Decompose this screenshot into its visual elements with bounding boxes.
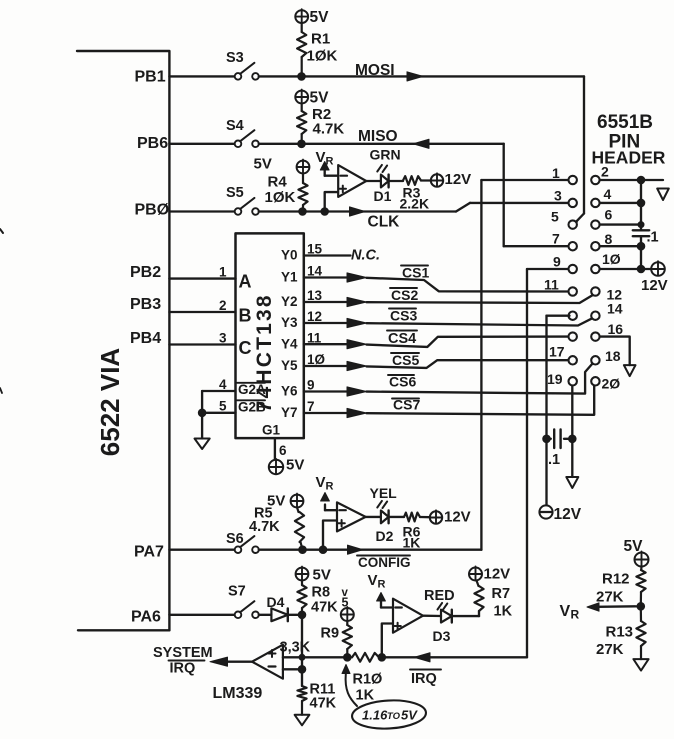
pin number 5 <box>219 399 227 414</box>
svg-text:Y6: Y6 <box>281 384 298 399</box>
pin Y6 stub and pin number 9 <box>281 378 347 399</box>
header pin 15 circle <box>569 332 577 340</box>
net CS3 wire to header pin 14 <box>367 318 593 325</box>
net label CS6 <box>388 374 416 390</box>
node junction VR <box>637 603 645 611</box>
switch S3 <box>226 50 259 80</box>
arrow CONFIG flow right <box>348 545 364 554</box>
header pin number 7 <box>552 231 560 247</box>
pin G2A <box>237 382 266 397</box>
resistor R5 <box>295 507 304 549</box>
svg-text:V: V <box>368 572 378 589</box>
6522 VIA chip outline <box>77 51 169 630</box>
svg-text:SYSTEM: SYSTEM <box>153 645 213 661</box>
svg-text:14: 14 <box>607 301 623 317</box>
header pin number 12 <box>607 287 623 303</box>
svg-text:5V: 5V <box>310 90 330 107</box>
svg-text:MISO: MISO <box>358 128 398 145</box>
wire header pin 1 to CONFIG net vertical <box>481 180 568 550</box>
value label R8 47K <box>311 585 338 616</box>
wire D1 to R3 <box>389 180 403 182</box>
svg-text:4.7K: 4.7K <box>249 519 280 535</box>
node junction rail pin8 <box>637 242 645 250</box>
svg-text:4: 4 <box>604 186 612 202</box>
capacitor .1 on rail <box>633 230 659 246</box>
svg-text:4.7K: 4.7K <box>313 121 345 138</box>
svg-text:1ØK: 1ØK <box>307 48 338 65</box>
header pin number 6 <box>605 207 613 223</box>
header pin number 19 <box>547 371 563 387</box>
svg-text:2.2K: 2.2K <box>400 196 430 212</box>
arrow CLK flow right <box>350 207 366 216</box>
wire R6 to 12V <box>420 516 430 519</box>
wire S6 to CONFIG line <box>259 549 482 551</box>
svg-text:D2: D2 <box>376 528 394 544</box>
svg-text:1: 1 <box>219 265 227 280</box>
svg-text:1Ø: 1Ø <box>307 352 325 367</box>
wire PB6 to S4 <box>169 143 234 145</box>
svg-text:R9: R9 <box>321 626 340 642</box>
capacitor .1 below header <box>547 430 573 469</box>
wire D3 to R7 <box>452 611 479 616</box>
ground pin 16 <box>624 365 636 376</box>
switch S7 <box>228 584 259 619</box>
svg-text:Y7: Y7 <box>281 405 298 420</box>
net CS5 wire to header pin 17 <box>367 360 570 368</box>
wire PB0 to S5 <box>169 210 234 212</box>
svg-text:47K: 47K <box>310 696 337 712</box>
value label R12 27K <box>596 571 630 606</box>
svg-text:PB2: PB2 <box>130 264 161 281</box>
svg-text:CS3: CS3 <box>390 308 417 324</box>
svg-text:PB3: PB3 <box>130 296 161 313</box>
svg-text:LM339: LM339 <box>213 685 263 702</box>
svg-text:1: 1 <box>552 165 560 181</box>
svg-text:CONFIG: CONFIG <box>358 555 411 570</box>
net label CS4 <box>387 331 417 348</box>
svg-text:9: 9 <box>553 254 561 270</box>
arrow Y3 output flow <box>347 318 367 327</box>
connector 6551B pin header label <box>592 112 666 168</box>
svg-text:15: 15 <box>307 242 323 257</box>
svg-text:R12: R12 <box>602 571 630 588</box>
header pin 14 circle <box>591 312 599 320</box>
diode D4 <box>271 608 287 621</box>
svg-text:TO: TO <box>387 711 401 722</box>
value label R4 10K <box>265 174 296 207</box>
svg-text:5V: 5V <box>310 9 330 26</box>
decoder U2 74HCT138 body <box>236 233 304 438</box>
header pin 7 circle <box>569 242 577 250</box>
svg-text:R: R <box>571 608 580 622</box>
power 5V for R8 <box>296 567 331 584</box>
svg-text:5V: 5V <box>313 567 331 584</box>
label RED <box>424 588 455 604</box>
label LM339 <box>213 685 263 702</box>
power 5V for R5 <box>267 493 303 510</box>
arrow SYSTEM IRQ flow left <box>210 657 228 666</box>
wire S7 to D4 <box>259 614 272 616</box>
power 5V for G1 <box>269 457 305 475</box>
node junction rail pin6 <box>638 222 644 228</box>
pin label PB1 <box>135 69 166 86</box>
svg-text:1Ø: 1Ø <box>602 251 621 267</box>
wire R8 node down to LM339 and R11 <box>301 615 303 686</box>
net CS1 wire to header pin 11 <box>367 278 569 292</box>
label GRN <box>370 147 401 163</box>
resistor R4 <box>298 174 307 212</box>
header pin 19 circle <box>569 377 577 385</box>
pin Y2 stub and pin number 13 <box>281 288 347 309</box>
value label R10 1K <box>353 672 383 704</box>
wire main comparator line R9/R10 node <box>283 656 347 658</box>
header pin number 2 <box>601 164 609 180</box>
svg-text:5V: 5V <box>401 708 418 723</box>
wire header pin 9 to IRQ net vertical <box>527 269 568 657</box>
svg-text:12V: 12V <box>554 506 582 523</box>
node junction D4/R8 <box>298 611 306 619</box>
wire S3 to R1 junction and MOSI line <box>259 75 584 77</box>
pin label PB6 <box>137 135 168 152</box>
svg-text:17: 17 <box>549 344 565 360</box>
header pin number 14 <box>607 301 623 317</box>
6522 VIA label <box>95 348 125 457</box>
pin C <box>239 338 252 358</box>
svg-text:16: 16 <box>608 321 624 337</box>
header pin 6 circle <box>591 220 599 228</box>
svg-text:R13: R13 <box>606 624 634 641</box>
svg-text:N.C.: N.C. <box>351 248 380 264</box>
node junction PB0/R4 <box>299 208 307 216</box>
led D2 yellow <box>377 501 388 523</box>
node junction PB0/comparator <box>321 208 329 216</box>
wire U5 inverting input stub <box>381 606 393 608</box>
signal label CONFIG <box>357 555 411 570</box>
net CS7 wire to header pin 20 <box>367 385 595 415</box>
node junction main line crossing <box>299 654 305 660</box>
resistor R10 <box>352 653 379 662</box>
svg-text:9: 9 <box>307 378 315 393</box>
svg-text:12V: 12V <box>641 277 668 294</box>
svg-text:CS2: CS2 <box>391 287 418 303</box>
reference VR arrow into U1 inverting input <box>316 149 334 176</box>
ground below cap <box>566 477 578 488</box>
svg-text:7: 7 <box>307 399 315 414</box>
net label CS5 <box>391 352 419 368</box>
reference VR arrow into U3 inverting input <box>316 474 334 510</box>
svg-text:R8: R8 <box>312 585 331 601</box>
svg-text:2: 2 <box>601 164 609 180</box>
wire U4 inverting stub <box>283 668 302 670</box>
power 5V for R1 <box>295 9 329 26</box>
wire MOSI vertical to header pin 5 <box>576 76 584 221</box>
svg-text:V: V <box>560 603 571 620</box>
svg-text:.1: .1 <box>647 230 659 246</box>
led D1 green <box>377 165 388 188</box>
svg-text:18: 18 <box>605 348 621 364</box>
svg-text:1.16: 1.16 <box>362 708 388 723</box>
power 12V for R7 <box>469 566 510 583</box>
svg-text:2: 2 <box>219 298 227 313</box>
pin number 2 <box>219 298 227 313</box>
svg-text:C: C <box>239 338 252 358</box>
svg-text:PB1: PB1 <box>135 69 166 86</box>
svg-text:3: 3 <box>219 331 227 346</box>
value label R1 10K <box>307 31 338 65</box>
pin number 4 <box>219 377 227 392</box>
header pin number 4 <box>604 186 612 202</box>
pin label PB3 <box>130 296 161 313</box>
resistor R13 <box>636 606 645 659</box>
svg-text:PBØ: PBØ <box>135 202 170 219</box>
svg-text:4: 4 <box>219 377 227 392</box>
power 5V for R9 <box>341 587 354 621</box>
pin Y4 stub and pin number 11 <box>281 330 347 351</box>
wire U1 non-inverting input from PB0 node <box>325 192 339 211</box>
svg-text:3: 3 <box>554 188 562 204</box>
svg-text:7: 7 <box>552 231 560 247</box>
svg-text:S7: S7 <box>228 584 246 600</box>
pin label PA6 <box>131 609 161 626</box>
svg-text:12V: 12V <box>445 171 472 188</box>
resistor R1 <box>297 23 306 76</box>
svg-text:.1: .1 <box>548 452 560 468</box>
svg-text:G1: G1 <box>262 423 281 438</box>
node junction PB1/R1 <box>298 73 306 81</box>
header pin 9 circle <box>569 265 577 273</box>
value label R11 47K <box>310 682 337 712</box>
svg-text:RED: RED <box>424 588 455 604</box>
svg-text:IRQ: IRQ <box>411 671 437 687</box>
svg-text:6522 VIA: 6522 VIA <box>95 348 125 457</box>
node junction U4 inverting stub <box>298 666 306 674</box>
value label R6 1K <box>403 524 421 551</box>
header pin number 17 <box>549 344 565 360</box>
header pin 11 circle <box>569 287 577 295</box>
svg-text:27K: 27K <box>596 641 624 658</box>
pin number 6 <box>279 443 287 458</box>
net label CS2 <box>390 287 418 303</box>
svg-text:6: 6 <box>605 207 613 223</box>
op-amp U5 comparator (IRQ led) <box>393 599 423 633</box>
ground top right <box>657 189 669 201</box>
svg-text:3,3K: 3,3K <box>280 640 311 656</box>
node junction rail pin10 <box>637 265 645 273</box>
svg-text:12V: 12V <box>444 509 471 526</box>
svg-text:CLK: CLK <box>368 214 401 231</box>
svg-text:19: 19 <box>547 371 563 387</box>
header pin number 3 <box>554 188 562 204</box>
svg-text:5: 5 <box>551 209 559 225</box>
wire IRQ line to header pin 9 <box>382 656 527 658</box>
header pin 20 circle <box>591 377 599 385</box>
power -12V below cap <box>539 505 581 523</box>
scan mark left edge 1 <box>0 229 3 233</box>
svg-text:R7: R7 <box>492 586 511 602</box>
svg-text:PB6: PB6 <box>137 135 168 152</box>
signal label MISO <box>358 128 398 145</box>
pin A <box>239 272 252 292</box>
pin Y3 stub and pin number 12 <box>281 309 347 330</box>
op-amp U4 LM339 comparator (SYSTEM IRQ) <box>252 645 283 679</box>
header pin number 16 <box>608 321 624 337</box>
header pin number 10 <box>602 251 621 267</box>
node junction cap left <box>543 435 551 443</box>
label D4 <box>267 594 285 610</box>
arrow MOSI flow right <box>407 72 423 81</box>
svg-text:11: 11 <box>544 277 559 293</box>
header pin 12 circle <box>591 287 599 295</box>
arrow VR flow left <box>587 603 599 611</box>
pin label PB2 <box>130 264 161 281</box>
annotation arrow to R10 node <box>342 665 357 707</box>
net CS6 wire to header pin 18 <box>367 364 593 394</box>
svg-text:5V: 5V <box>254 156 272 173</box>
svg-text:GRN: GRN <box>370 147 401 163</box>
svg-text:R: R <box>326 481 334 493</box>
node junction rail pin4 <box>637 199 645 207</box>
resistor R11 <box>297 686 306 715</box>
wire PA6 to S7 <box>169 614 234 616</box>
svg-text:V: V <box>316 149 326 166</box>
reference VR arrow into U5 inverting input <box>368 572 386 608</box>
node junction G2B/ground <box>198 409 206 417</box>
switch S4 <box>226 118 259 147</box>
pin B <box>239 306 252 326</box>
wire header pin 19 down to bypass cap <box>571 386 573 478</box>
wire PB3 to pin B <box>169 311 235 313</box>
wire U3 output to D2 <box>366 516 381 518</box>
net label IRQ <box>410 670 441 688</box>
svg-text:Y1: Y1 <box>281 270 298 285</box>
switch S5 <box>226 185 259 215</box>
svg-text:1ØK: 1ØK <box>265 189 296 206</box>
svg-text:YEL: YEL <box>370 485 398 501</box>
svg-text:R: R <box>326 156 334 168</box>
header pin number 18 <box>605 348 621 364</box>
svg-text:Y3: Y3 <box>281 315 298 330</box>
svg-text:R1: R1 <box>311 31 330 48</box>
arrow Y6 output flow <box>347 387 367 396</box>
svg-text:CS1: CS1 <box>402 265 429 281</box>
power 12V for R3 <box>431 171 471 188</box>
value label R3 2.2K <box>400 185 430 212</box>
svg-text:R1Ø: R1Ø <box>353 672 383 688</box>
svg-text:S5: S5 <box>226 185 244 201</box>
wire PB4 to pin C <box>169 343 235 345</box>
svg-text:PA7: PA7 <box>134 544 164 561</box>
node junction R10 right <box>378 654 386 662</box>
led D3 red <box>438 603 452 623</box>
pin label PB0 <box>135 202 170 219</box>
pin label PA7 <box>134 544 164 561</box>
wire G2A G2B tie <box>202 391 235 439</box>
header pin 5 circle <box>569 220 577 228</box>
svg-text:MOSI: MOSI <box>355 62 395 79</box>
svg-text:14: 14 <box>307 264 323 279</box>
net CS4 wire to header pin 15 <box>367 337 570 347</box>
arrow IRQ flow left <box>414 653 430 662</box>
wire PB2 to pin A <box>169 277 235 279</box>
switch S6 <box>226 531 259 553</box>
annotation 1.16 to 5V ellipse <box>351 699 426 731</box>
header pin 16 circle <box>591 332 599 340</box>
arrow MISO flow left <box>413 139 429 148</box>
header pin number 5 <box>551 209 559 225</box>
resistor R2 <box>297 103 306 143</box>
svg-text:5: 5 <box>342 596 349 610</box>
value label R9 3.3K <box>280 626 340 656</box>
svg-text:PB4: PB4 <box>130 330 161 347</box>
ground for G2A G2B <box>195 439 210 450</box>
header pin 2 circle <box>591 176 599 184</box>
arrow Y7 output flow <box>347 408 367 417</box>
net CS2 wire to header pin 12 <box>367 295 593 303</box>
header pin number 11 <box>544 277 559 293</box>
pin Y7 stub and pin number 7 <box>281 399 347 420</box>
arrow Y2 output flow <box>347 297 367 306</box>
header pin 13 circle <box>569 312 577 320</box>
pin Y0 stub and pin number 15 <box>281 242 351 263</box>
resistor R8 <box>297 580 306 614</box>
svg-text:V: V <box>316 474 326 491</box>
power 12V for R6 <box>430 509 471 526</box>
svg-text:A: A <box>239 272 252 292</box>
arrow Y5 output flow <box>347 361 367 370</box>
power 12V at rail bottom <box>641 261 668 294</box>
svg-text:12: 12 <box>307 309 322 324</box>
svg-text:5: 5 <box>219 399 227 414</box>
svg-text:CS5: CS5 <box>392 352 419 368</box>
pin number 1 <box>219 265 227 280</box>
svg-text:1K: 1K <box>403 535 421 551</box>
power 5V for R12 <box>624 538 649 567</box>
signal label MOSI <box>355 62 395 79</box>
svg-text:47K: 47K <box>311 600 338 616</box>
node junction rail pin2 <box>637 176 645 184</box>
label YEL <box>370 485 398 501</box>
wire S4 to MISO line <box>259 143 504 145</box>
wire MISO vertical to header pin 7 <box>504 144 569 246</box>
svg-text:B: B <box>239 306 252 326</box>
label N.C. on Y0 <box>351 248 380 264</box>
wire header pin 5 diagonal from MOSI <box>575 221 578 224</box>
wire D4 to R8 junction <box>288 614 302 616</box>
svg-text:IRQ: IRQ <box>170 661 196 677</box>
svg-text:1K: 1K <box>494 604 513 620</box>
pin label PB4 <box>130 330 161 347</box>
resistor R3 <box>403 176 421 185</box>
svg-text:13: 13 <box>307 288 323 303</box>
power rail right of header <box>600 180 652 269</box>
value label R5 4.7K <box>249 506 280 536</box>
header pin 3 circle <box>569 199 577 207</box>
wire R3 to 12V <box>421 179 431 181</box>
arrow Y4 output flow <box>347 340 367 349</box>
wire U4 output to SYSTEM IRQ <box>228 661 253 663</box>
svg-text:D1: D1 <box>374 188 392 204</box>
pin G1 <box>262 423 281 438</box>
label D1 <box>374 188 392 204</box>
svg-text:G2A: G2A <box>238 382 266 397</box>
header pin 17 circle <box>569 356 577 364</box>
wire U5 non-inverting input from R10 node <box>382 624 393 658</box>
label D2 <box>376 528 394 544</box>
pin number 3 <box>219 331 227 346</box>
wire U1 inverting input stub <box>325 175 339 177</box>
header pin number 1 <box>552 165 560 181</box>
resistor R7 <box>474 581 483 612</box>
